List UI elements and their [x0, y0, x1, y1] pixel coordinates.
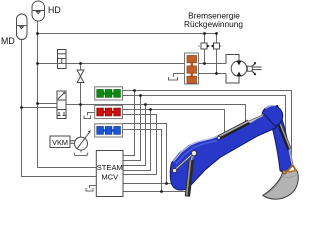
junction HD mid bus: [36, 62, 39, 65]
wire motor lines: [199, 63, 227, 65]
wire R2 line: [123, 115, 157, 175]
wire B2 line: [123, 130, 162, 192]
wire MCV fan 1: [123, 91, 135, 156]
boom pin: [191, 151, 196, 156]
motor arrows: [237, 61, 242, 65]
wire orange valve tank branch: [174, 74, 185, 78]
boom cylinder barrel: [187, 160, 191, 197]
svg-text:STEAM: STEAM: [97, 163, 123, 172]
wire B1 line: [123, 124, 167, 184]
boom (main blue arm): [170, 115, 276, 191]
stick cyl pin: [217, 136, 220, 139]
wire check valve A drop: [204, 34, 206, 44]
wire HD vertical bus: [38, 21, 97, 168]
junction L2 line: [160, 190, 163, 193]
junction R1 stair: [149, 108, 152, 111]
junction check valve B top: [215, 32, 218, 35]
svg-text:MCV: MCV: [101, 173, 119, 182]
wire MCV bottom line L2: [123, 191, 188, 193]
tank symbol T4 pump: [74, 153, 88, 156]
junction G2 stair: [139, 94, 142, 97]
stick cylinder barrel: [219, 122, 249, 138]
pilot valve blue: [95, 124, 123, 137]
junction MD valve feed: [20, 106, 23, 109]
tank symbol T2: [84, 116, 91, 119]
stick cylinder rod: [249, 115, 264, 121]
junction S stair: [144, 103, 147, 106]
tank symbol T3: [86, 188, 93, 191]
svg-text:HD: HD: [48, 5, 61, 15]
wire pump suction: [80, 150, 82, 153]
check valve B: [211, 43, 223, 49]
wire MCV fan 2: [123, 96, 141, 161]
junction check valve A bottom: [203, 62, 206, 65]
junction pump riser top: [79, 62, 82, 65]
boom cylinder rod: [192, 153, 194, 161]
junction pump riser supply: [79, 103, 82, 106]
EXCAVATOR: [170, 106, 298, 200]
stick (fore arm): [267, 106, 292, 175]
VKM box: [50, 136, 75, 148]
svg-text:VKM: VKM: [52, 138, 68, 147]
bucket inner shade: [266, 177, 282, 195]
junction HD top bus: [36, 32, 39, 35]
wire HD to valve V2: [38, 103, 58, 105]
wire red valve tank branch: [88, 113, 95, 116]
wire mid supply y63.5: [38, 63, 185, 65]
shaft: [70, 140, 75, 142]
wire R1 line: [123, 110, 225, 133]
wire MCV fan 5: [123, 174, 157, 176]
wire MD vertical bus: [22, 40, 97, 177]
boom highlight: [173, 115, 263, 162]
wire MCV bottom line L1: [123, 183, 171, 185]
shutoff valve (hourglass): [77, 70, 84, 83]
junction G1 stair: [133, 89, 136, 92]
bucket rim tan: [284, 170, 297, 172]
valve F1 (2/2 on HD line): [58, 50, 67, 69]
wire G1 line: [123, 91, 292, 158]
bucket: [263, 170, 299, 199]
bucket pivot pin: [283, 171, 287, 175]
wire MCV fan 3: [123, 105, 146, 166]
pilot valve green: [95, 87, 123, 100]
junction HD valve feed: [36, 102, 39, 105]
svg-text:MD: MD: [1, 36, 15, 46]
motor shaft: [247, 66, 252, 71]
wire pump riser x80: [80, 64, 82, 71]
motor circle: [231, 61, 247, 77]
bucket linkage: [287, 165, 297, 172]
foot pin: [173, 168, 177, 172]
wire MCV fan 4: [123, 110, 151, 171]
svg-text:Rückgewinnung: Rückgewinnung: [184, 19, 243, 29]
tank symbol T1: [169, 77, 178, 80]
boom elbow knob: [262, 106, 283, 127]
pilot valve red: [95, 105, 123, 118]
bucket cylinder barrel: [280, 125, 290, 150]
wire G2 line: [123, 96, 286, 137]
valve V2 (3-pos proportional): [57, 91, 66, 119]
junction check valve A top: [203, 32, 206, 35]
wire supply S line: [66, 105, 246, 123]
recovery valve (orange): [185, 53, 199, 84]
junction check valve B bottom: [215, 72, 218, 75]
accumulator MD: [17, 14, 28, 40]
hydraulic motor housing: [226, 55, 262, 84]
accumulator HD: [32, 1, 45, 21]
wire MCV left tank stub: [90, 186, 97, 189]
junction L1 line: [165, 182, 168, 185]
wire top HD bus to recovery: [38, 34, 217, 44]
bucket cylinder rod: [290, 150, 293, 167]
MCV box: [96, 151, 123, 197]
check valve A: [198, 43, 209, 49]
left support rod: [175, 153, 194, 170]
pump: [75, 130, 91, 150]
wire MD to valve V2: [22, 107, 58, 109]
